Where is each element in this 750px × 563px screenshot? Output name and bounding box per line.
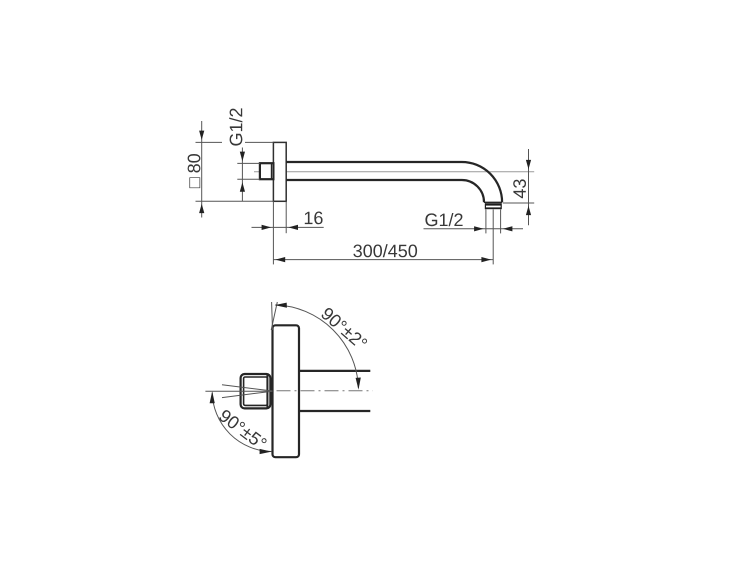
inlet nut (side view): [260, 163, 274, 179]
extension line: outlet face (right, for 43): [503, 202, 534, 204]
dimension square-80: dimension line and arrows: [199, 121, 204, 218]
dimension G1/2 (outlet): dimension line and arrows: [424, 226, 524, 231]
angle text 90+-5 (rotated): [218, 409, 268, 451]
dash-dot centerline: [277, 390, 373, 392]
inlet nut (edge view): [241, 374, 271, 408]
angle text 90+-2 (rotated): [320, 306, 368, 350]
dimension 16: dimension line and arrows: [252, 225, 324, 230]
angle arc 90+-5: [210, 391, 272, 454]
dimension text 300/450: [353, 244, 417, 257]
dimension text G1/2 (inlet, rotated): [229, 108, 242, 145]
dimension G1/2 (inlet): dimension line and arrows: [240, 148, 245, 202]
arm tube stub (edge view): [299, 371, 370, 411]
centerline of arm (thin): [254, 171, 534, 173]
tolerance fan lines (plus/minus 5 deg) left of nut: [205, 385, 272, 398]
dimension text 43 (rotated): [513, 179, 526, 198]
extension line: outlet axis down to length dimension: [492, 210, 494, 265]
extension line: outlet left edge: [485, 210, 487, 234]
extension line: flange right edge down: [285, 201, 287, 233]
extension line: outlet right edge: [500, 210, 502, 234]
dimension 300/450: dimension line and arrows: [273, 257, 493, 262]
wall flange (side view): [273, 142, 286, 201]
extension line: flange left edge down: [272, 201, 274, 264]
flange plate (edge view): [273, 325, 300, 457]
dimension 43: dimension line and arrows: [526, 149, 531, 225]
dimension text square-80: [188, 154, 201, 188]
dimension square-80: extension lines: [196, 142, 274, 201]
dimension text G1/2 (outlet): [425, 213, 462, 226]
outlet collar / thread end: [485, 203, 501, 209]
dimension G1/2 (inlet): extension lines: [237, 163, 260, 179]
angle arc 90+-2: [275, 303, 361, 390]
dimension text 16: [305, 212, 323, 225]
arm tube with 90 degree bend: [286, 162, 502, 202]
tolerance fan lines (plus/minus 2 deg) above flange: [271, 302, 277, 330]
